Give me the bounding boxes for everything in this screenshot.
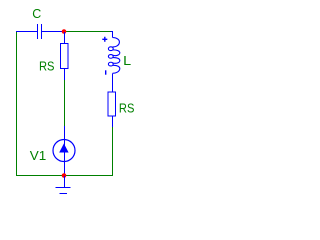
- current source V1: arrow triangle: [59, 144, 68, 153]
- ground: bottom bar: [60, 193, 68, 195]
- svg-text:V1: V1: [30, 148, 47, 163]
- inductor L: bottom pin: [112, 73, 114, 92]
- svg-text:L: L: [123, 53, 131, 68]
- node junction dot top: [62, 29, 67, 34]
- resistor RS left: body: [61, 44, 69, 69]
- inductor L: coil loop 3: [108, 62, 113, 66]
- current source V1: line through: [64, 140, 66, 176]
- resistor RS right: body: [108, 92, 116, 116]
- ground: stub: [64, 176, 66, 188]
- wire bottom horizontal: [16, 175, 113, 177]
- inductor L: minus polarity mark (rotated): [105, 70, 107, 74]
- inductor L: coil arcs: [112, 38, 120, 74]
- ground: top bar: [56, 187, 71, 189]
- inductor L: top pin: [111, 32, 113, 38]
- capacitor C: left pin: [16, 31, 37, 33]
- inductor L: plus polarity mark: [102, 37, 107, 42]
- resistor RS left: bottom pin: [64, 69, 66, 81]
- current source V1: top pin: [64, 126, 66, 140]
- capacitor C: right plate: [41, 24, 43, 39]
- current source V1: circle: [53, 140, 75, 162]
- resistor RS left: top pin: [64, 32, 66, 44]
- wire middle (resistor RS to V1): [64, 80, 66, 127]
- capacitor C: right pin: [42, 31, 64, 33]
- svg-text:RS: RS: [39, 58, 55, 73]
- wire left vertical: [16, 31, 18, 176]
- capacitor C: left plate: [37, 24, 39, 39]
- svg-text:C: C: [32, 6, 41, 21]
- wire top (node to inductor): [64, 31, 111, 33]
- node junction dot bottom: [62, 173, 67, 178]
- wire right vertical (resistor to bottom): [112, 127, 114, 176]
- svg-text:RS: RS: [119, 101, 135, 116]
- inductor L: coil loop 1: [108, 47, 113, 51]
- resistor RS right: bottom pin: [112, 116, 114, 127]
- inductor L: coil loop 2: [108, 55, 113, 59]
